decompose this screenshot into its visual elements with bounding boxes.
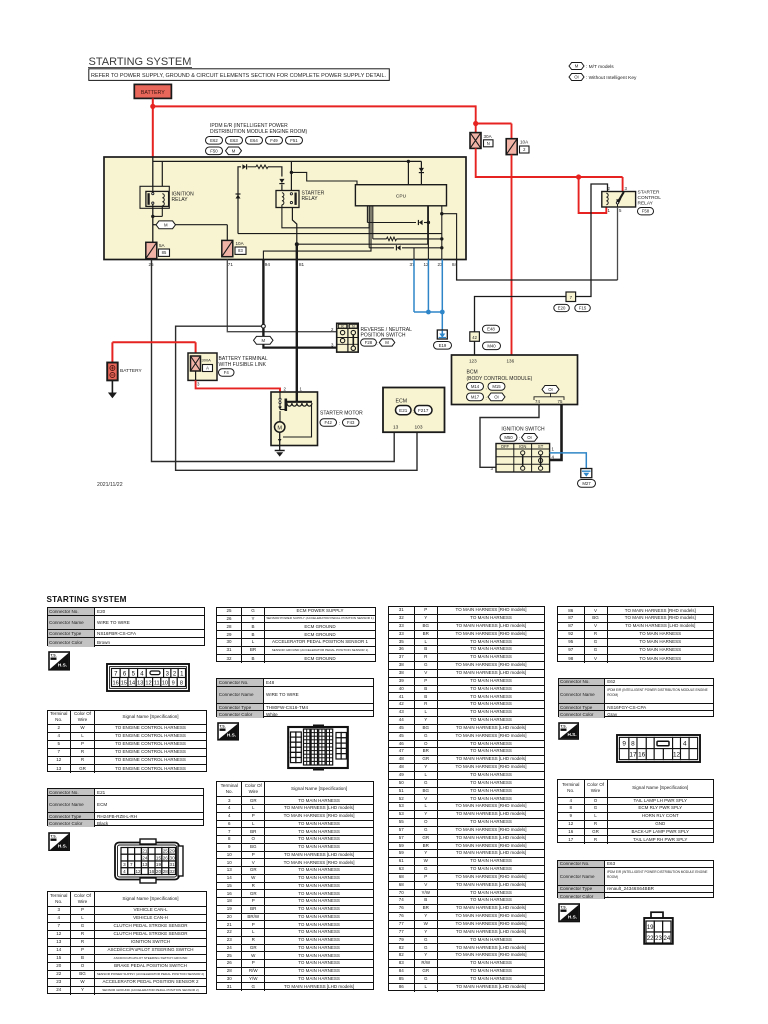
- svg-text:BATTERY: BATTERY: [120, 368, 142, 374]
- diode D4: [419, 168, 424, 172]
- connector F217 oval: [415, 406, 433, 415]
- svg-text:M15: M15: [492, 384, 501, 389]
- svg-text:F51: F51: [290, 138, 298, 143]
- connector E48 terminal table: [216, 781, 374, 990]
- svg-text:: M/T models: : M/T models: [586, 64, 614, 70]
- svg-text:2021/11/22: 2021/11/22: [97, 482, 123, 488]
- wire: connector 7 to BCM 123: [475, 297, 567, 332]
- svg-text:E63: E63: [230, 138, 238, 143]
- svg-text:STARTER MOTOR: STARTER MOTOR: [320, 411, 363, 417]
- ground connector M27: [581, 469, 592, 478]
- svg-text:136: 136: [507, 359, 515, 364]
- svg-text:2: 2: [284, 386, 287, 391]
- svg-text::: :: [519, 436, 520, 441]
- wire: diode branch bus: [238, 233, 442, 235]
- svg-text:10A: 10A: [520, 140, 529, 145]
- connector E48 oval: [483, 325, 500, 333]
- svg-text:71: 71: [228, 262, 234, 267]
- svg-text:RELAY: RELAY: [302, 196, 319, 202]
- connector F50: [206, 147, 223, 155]
- wire: H1 diode-resistor branch: [238, 167, 241, 234]
- connector E48 cont2 terminal table: [557, 606, 714, 662]
- svg-text:74: 74: [535, 399, 540, 404]
- IPDM E/R box: [104, 157, 466, 260]
- svg-text:10A: 10A: [236, 241, 245, 246]
- svg-text:11: 11: [154, 681, 160, 687]
- svg-text:15: 15: [121, 681, 127, 687]
- svg-text:OFF: OFF: [501, 444, 510, 449]
- svg-text:9: 9: [171, 681, 174, 687]
- svg-text:(BODY CONTROL MODULE): (BODY CONTROL MODULE): [467, 376, 533, 382]
- connector E63 face: [643, 911, 674, 945]
- svg-text:123: 123: [469, 359, 477, 364]
- connector E62 terminal table: [557, 779, 714, 843]
- wire: relay pin5 to IPDM pin84: [617, 207, 619, 280]
- svg-text:,: ,: [486, 385, 487, 390]
- svg-text:1: 1: [552, 447, 555, 452]
- svg-text:M14: M14: [471, 384, 480, 389]
- wire: pin 81 heavy to starter motor: [296, 260, 298, 393]
- ECM box: [383, 388, 445, 433]
- svg-text:E19: E19: [439, 343, 447, 348]
- svg-text:IGNITION SWITCH: IGNITION SWITCH: [501, 427, 545, 433]
- svg-text:F50: F50: [210, 148, 218, 153]
- svg-text:4: 4: [552, 454, 555, 459]
- svg-text:M17: M17: [471, 394, 480, 399]
- svg-text:WITH FUSIBLE LINK: WITH FUSIBLE LINK: [219, 362, 267, 368]
- connector E20 terminal table: [47, 710, 208, 773]
- resistor R2: [387, 237, 397, 241]
- wire: diode line to pin 37: [368, 206, 370, 248]
- wire: relay pin2 to connector 7: [576, 184, 608, 297]
- svg-text:29: 29: [170, 848, 176, 853]
- svg-text:25: 25: [163, 848, 169, 853]
- svg-text:20: 20: [156, 868, 162, 873]
- svg-text:F28: F28: [365, 340, 373, 345]
- wire: internal top bus: [152, 157, 154, 186]
- wire: pin 94 internal: [263, 206, 371, 260]
- legend Without Intelligent Key: [569, 74, 584, 81]
- wire: switch pin1 to M27 blue: [550, 453, 587, 469]
- wire: branch to CPU left: [290, 171, 293, 174]
- svg-text:M27: M27: [582, 481, 591, 486]
- svg-text:REFER TO POWER SUPPLY, GROUND: REFER TO POWER SUPPLY, GROUND & CIRCUIT …: [91, 73, 386, 79]
- svg-text:E64: E64: [250, 138, 258, 143]
- svg-text:300A: 300A: [202, 358, 212, 363]
- svg-text:F217: F217: [418, 408, 429, 413]
- svg-text:4: 4: [123, 868, 126, 873]
- svg-text:19: 19: [646, 924, 653, 930]
- svg-text:RELAY: RELAY: [638, 201, 654, 207]
- svg-text:E20: E20: [558, 306, 566, 311]
- svg-text:M: M: [385, 340, 389, 345]
- svg-text:T.S.: T.S.: [219, 724, 225, 728]
- wire: pin 94 heavy to switch pin 3: [262, 260, 264, 325]
- connector F42: [320, 419, 337, 426]
- svg-text:10: 10: [162, 681, 168, 687]
- svg-text:E62: E62: [210, 138, 218, 143]
- connector M14 oval: [467, 383, 484, 391]
- svg-text:H.S.: H.S.: [57, 843, 66, 848]
- svg-text:OI: OI: [574, 75, 579, 80]
- svg-text:T.S.: T.S.: [560, 725, 566, 729]
- legend M/T models: [569, 63, 584, 70]
- connector F49: [266, 137, 283, 145]
- starter control relay: [602, 192, 636, 208]
- wire: pin 25 to ECM 13: [152, 260, 395, 462]
- svg-text:M: M: [261, 338, 265, 343]
- fuse 5A #85: [146, 242, 157, 258]
- svg-text:24: 24: [142, 855, 148, 860]
- svg-text:4: 4: [683, 740, 687, 747]
- svg-text:3: 3: [123, 862, 126, 867]
- battery B2 symbol: [111, 342, 113, 362]
- ground under starter motor: [275, 450, 285, 452]
- svg-text:M: M: [575, 64, 579, 69]
- reverse/neutral position switch: [337, 323, 359, 352]
- svg-text:5: 5: [619, 208, 622, 213]
- H.S. icon E21: [48, 832, 71, 852]
- svg-text:16: 16: [638, 751, 646, 758]
- fuse 10A #83: [222, 240, 233, 256]
- svg-text:7: 7: [130, 862, 133, 867]
- connector E20 info table: [47, 607, 206, 647]
- svg-text:N: N: [487, 141, 490, 146]
- connector M15 oval: [488, 383, 505, 391]
- diode D2: [279, 179, 284, 183]
- svg-text:12: 12: [145, 681, 151, 687]
- connector F28: [361, 339, 377, 346]
- svg-text:F15: F15: [579, 306, 587, 311]
- connector F15 oval: [575, 304, 591, 311]
- wire: CPU feeds: [407, 160, 410, 163]
- svg-text:STARTING SYSTEM: STARTING SYSTEM: [89, 56, 192, 68]
- svg-text:H.S.: H.S.: [227, 732, 236, 737]
- svg-text:M: M: [164, 222, 168, 227]
- H.S. icon E63: [558, 903, 581, 923]
- svg-text:13: 13: [142, 862, 148, 867]
- svg-text:A: A: [206, 366, 209, 371]
- svg-text:8: 8: [631, 740, 635, 747]
- diode D5: [419, 220, 423, 225]
- svg-text:94: 94: [265, 262, 271, 267]
- M/T hexagon on switch wire: [254, 336, 274, 344]
- svg-text:H.S.: H.S.: [57, 662, 66, 667]
- svg-text:M50: M50: [504, 435, 513, 440]
- wire: 30A link to starter control relay red: [476, 148, 623, 177]
- svg-text:CONTROL: CONTROL: [638, 195, 662, 201]
- svg-text:POSITION SWITCH: POSITION SWITCH: [361, 333, 406, 339]
- svg-text:85: 85: [162, 250, 167, 255]
- starter motor: [271, 392, 318, 446]
- svg-text:BCM: BCM: [467, 370, 478, 376]
- svg-text:16: 16: [149, 868, 155, 873]
- connector 7 (E20-F15): [566, 292, 576, 302]
- connector E62 info table: [558, 678, 715, 717]
- svg-text:103: 103: [415, 425, 423, 431]
- svg-text:ECM: ECM: [396, 399, 408, 405]
- svg-text:F43: F43: [347, 420, 355, 425]
- wire: pins 37/12/23 blue to E19: [413, 260, 415, 313]
- resistor R1: [256, 165, 268, 169]
- svg-text::: :: [413, 409, 414, 414]
- svg-text:E48: E48: [487, 327, 495, 332]
- ground connector E19: [437, 330, 447, 339]
- ignition relay: [140, 186, 169, 208]
- OI hexagon: [522, 434, 538, 442]
- wire: battery feed red: [152, 98, 154, 157]
- svg-text:30A: 30A: [484, 134, 493, 139]
- wire: starter relay coil out: [282, 205, 369, 228]
- svg-text:81: 81: [299, 262, 305, 267]
- H.S. icon E48: [217, 722, 240, 741]
- OI hexagon: [488, 393, 505, 401]
- svg-text:75: 75: [558, 399, 563, 404]
- svg-text::: :: [339, 421, 340, 426]
- svg-text:9: 9: [622, 740, 626, 747]
- svg-text:23: 23: [655, 935, 662, 941]
- wire: red drop to 30A link: [475, 105, 477, 132]
- H.S. icon E62: [558, 722, 580, 740]
- svg-text:22: 22: [646, 935, 653, 941]
- connector E63 info table: [557, 860, 713, 899]
- svg-text:M40: M40: [487, 343, 496, 348]
- connector M50 oval: [500, 434, 517, 442]
- svg-text:DISTRIBUTION MODULE ENGINE ROO: DISTRIBUTION MODULE ENGINE ROOM): [210, 129, 308, 135]
- svg-text:CPU: CPU: [396, 194, 407, 200]
- svg-text:OI: OI: [548, 387, 553, 392]
- connector E21 info table: [47, 788, 205, 826]
- svg-text:3: 3: [625, 186, 628, 191]
- svg-text:M: M: [232, 148, 236, 153]
- connector E48 face: [287, 724, 349, 771]
- svg-text:30: 30: [170, 855, 176, 860]
- svg-text:8: 8: [180, 681, 183, 687]
- svg-text:T.S.: T.S.: [560, 906, 566, 910]
- wire: contact to pin 81: [292, 208, 296, 245]
- fusible link 30A: [470, 133, 481, 149]
- connector F58: [638, 208, 654, 215]
- connector 42 (E48-M40): [470, 332, 480, 342]
- svg-text:T.S.: T.S.: [50, 834, 56, 838]
- svg-text:OI: OI: [494, 394, 499, 399]
- svg-text:RELAY: RELAY: [172, 197, 189, 203]
- connector E63: [226, 137, 243, 145]
- svg-text:13: 13: [137, 681, 143, 687]
- ground below battery: [111, 380, 113, 392]
- svg-text:T.S.: T.S.: [50, 653, 56, 657]
- svg-text:83: 83: [238, 248, 243, 253]
- diode D6: [397, 245, 401, 250]
- wire: starter relay contact feed: [290, 161, 292, 192]
- connector E21 oval: [396, 406, 412, 415]
- H.S. icon E20: [48, 651, 71, 671]
- wire: resistor line: [372, 206, 374, 239]
- svg-text:12: 12: [672, 751, 680, 758]
- svg-text:26: 26: [163, 855, 169, 860]
- svg-text:OI: OI: [527, 435, 532, 440]
- battery terminal with fusible link F4: [188, 353, 217, 380]
- connector F51: [286, 137, 303, 145]
- wire: pin 71 to R/N switch pin 2: [227, 260, 336, 332]
- svg-text:: Without Intelligent Key: : Without Intelligent Key: [586, 75, 637, 81]
- connector E21 cont terminal table: [216, 607, 376, 663]
- svg-text:STARTER: STARTER: [638, 190, 660, 196]
- wire: pin 84 internal: [442, 214, 457, 260]
- connector E21 face: [110, 838, 186, 884]
- starter relay: [276, 191, 299, 208]
- svg-text:19: 19: [156, 862, 162, 867]
- svg-text:ST: ST: [538, 444, 544, 449]
- svg-text:31: 31: [170, 862, 176, 867]
- M/T hexagon: [226, 147, 242, 155]
- wire: BCM 75 heavy to ignition switch 4: [550, 405, 562, 460]
- svg-text:IPDM E/R (INTELLIGENT POWER: IPDM E/R (INTELLIGENT POWER: [210, 123, 288, 129]
- wire: CPU bottom pins: [366, 206, 368, 223]
- connector E62 face: [616, 734, 701, 763]
- CPU block U1: [355, 185, 446, 206]
- connector E20 oval: [554, 304, 570, 311]
- wire: splice to ECM 103: [176, 326, 417, 470]
- svg-text:3: 3: [197, 382, 200, 387]
- svg-text:21: 21: [142, 848, 148, 853]
- svg-text:14: 14: [129, 681, 135, 687]
- connector E21 terminal table: [47, 891, 208, 994]
- svg-text:15: 15: [156, 855, 162, 860]
- svg-text:M: M: [277, 425, 282, 431]
- connector E62: [206, 137, 223, 145]
- svg-text:5A: 5A: [159, 243, 166, 248]
- schematic: STARTING SYSTEM wiring diagram: [0, 0, 768, 560]
- svg-text:BATTERY: BATTERY: [141, 90, 165, 96]
- svg-text:F42: F42: [325, 420, 333, 425]
- wire: fusible link to starter motor red: [196, 380, 280, 392]
- fuse 10A (engine room): [506, 139, 517, 155]
- motor M: [279, 411, 281, 422]
- svg-text:24: 24: [663, 935, 670, 941]
- M/T option hexagon on 10A feed: [153, 224, 156, 226]
- svg-text:F4: F4: [224, 370, 230, 375]
- svg-text:IGN: IGN: [519, 444, 526, 449]
- battery B1 (BATTERY box): [134, 84, 171, 98]
- svg-text:28: 28: [163, 868, 169, 873]
- diode D1: [242, 164, 246, 169]
- diode D3: [236, 195, 241, 199]
- svg-text:13: 13: [393, 425, 399, 431]
- svg-text:H.S.: H.S.: [567, 732, 576, 737]
- svg-text:16: 16: [112, 681, 118, 687]
- svg-text:F49: F49: [270, 138, 278, 143]
- connector F4: [219, 369, 235, 376]
- wire: 10A fuse to BCM 136 red: [511, 155, 513, 355]
- svg-text:H.S.: H.S.: [567, 914, 576, 919]
- connector E48 info table: [216, 678, 374, 717]
- wire: red branch to 10A fuse: [475, 123, 512, 125]
- connector E20 face: [106, 663, 190, 692]
- connector F43: [343, 419, 360, 426]
- svg-text:F58: F58: [642, 209, 650, 214]
- connector M40 oval: [483, 342, 501, 350]
- M/T hexagon: [379, 339, 395, 346]
- section title: [47, 595, 127, 604]
- svg-text:17: 17: [629, 751, 637, 758]
- svg-text::: :: [486, 396, 487, 401]
- solenoid coil: [284, 399, 287, 412]
- connector E64: [246, 137, 263, 145]
- OI hexagon over pins 74/75: [542, 386, 559, 394]
- svg-text:32: 32: [170, 868, 176, 873]
- connector E48 cont terminal table: [388, 606, 545, 991]
- svg-text:E21: E21: [399, 408, 408, 413]
- svg-text:42: 42: [472, 335, 477, 340]
- svg-text:1: 1: [300, 386, 303, 391]
- connector M17 oval: [467, 393, 484, 401]
- wire: ignition relay to fuses: [152, 208, 154, 242]
- wire: BCM 74 to ignition switch 3: [480, 405, 539, 468]
- svg-text:12: 12: [135, 868, 141, 873]
- svg-text::: :: [377, 341, 378, 346]
- BCM box: [452, 355, 578, 405]
- note box: [89, 69, 390, 81]
- svg-text:1: 1: [608, 208, 611, 213]
